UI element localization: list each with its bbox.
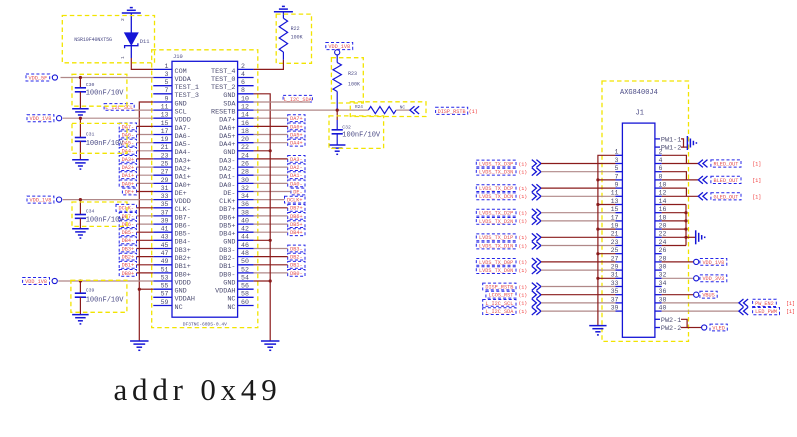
svg-text:1: 1 xyxy=(615,149,619,156)
svg-text:DISP_RSTB: DISP_RSTB xyxy=(485,284,513,290)
svg-text:DE-: DE- xyxy=(223,190,235,198)
svg-text:59: 59 xyxy=(161,299,169,306)
svg-text:DA3-: DA3- xyxy=(290,157,302,163)
wire J10 pin 8 GND to ground bus xyxy=(254,94,271,341)
svg-text:9: 9 xyxy=(165,95,169,102)
svg-text:VDDD: VDDD xyxy=(175,117,191,125)
svg-text:15: 15 xyxy=(161,120,169,127)
J10 pin 13 (VDDD) stub and label xyxy=(153,117,172,119)
wire J1 pin 6 to BLED_OUT xyxy=(662,172,687,180)
svg-text:VDDD: VDDD xyxy=(175,198,191,206)
wire GND bus to sideways ground xyxy=(686,236,696,238)
J10 pin 33 (VDDD) stub and label xyxy=(153,199,172,201)
net label L_I2C_SCL at J1 pin 37 xyxy=(483,300,516,307)
svg-text:40: 40 xyxy=(241,218,249,225)
svg-text:38: 38 xyxy=(241,209,249,216)
J10 pin 21 (DA4-) stub and label xyxy=(153,150,172,152)
connector J1 body xyxy=(622,123,655,337)
svg-text:NC: NC xyxy=(175,304,183,312)
svg-text:(1): (1) xyxy=(519,186,528,192)
svg-text:23: 23 xyxy=(611,239,619,246)
J10 pin 44 (GND) stub and label xyxy=(238,239,254,241)
svg-text:GND: GND xyxy=(223,239,235,247)
svg-text:DA2+: DA2+ xyxy=(175,166,191,174)
net label GLED_OUT (page 1) xyxy=(711,193,741,200)
wire LVDS_TX_D0P to J1 pin 27 xyxy=(541,261,616,263)
power port VDD_1V8 xyxy=(694,259,699,264)
J10 pin 9 (GND) stub and label xyxy=(153,101,172,103)
J10 pin 12 (RESETB) stub and label xyxy=(238,109,254,111)
J10 pin 48 (DB2-) stub and label xyxy=(238,256,254,258)
svg-text:DCLK-: DCLK- xyxy=(118,206,134,212)
svg-text:DB7+: DB7+ xyxy=(219,206,235,214)
wire DB2+ to J10 pin 47 xyxy=(137,256,154,258)
J1 pin 21 stub and number xyxy=(616,236,623,238)
svg-text:DB4-: DB4- xyxy=(122,238,134,244)
junction RESETB at R23/C32 xyxy=(336,109,339,112)
svg-text:C39: C39 xyxy=(86,287,95,293)
J10 pin 19 (DA5-) stub and label xyxy=(153,142,172,144)
wire L_I2C_SCL to J1 pin 37 xyxy=(541,302,616,304)
net label LVDS_TX_D0P at J1 pin 27 xyxy=(476,259,516,266)
svg-text:DA0+: DA0+ xyxy=(122,181,134,187)
svg-text:TEST_1: TEST_1 xyxy=(175,84,199,92)
wire J1 pin 7 GND to ground line xyxy=(598,179,616,181)
diode D11 (Schottky NSR10F40NXT5G) xyxy=(130,13,132,33)
net label DB7- at J10 pin 37 xyxy=(119,213,136,220)
yellow courtyard box around J10 xyxy=(152,50,258,328)
wire DA3+ to J10 pin 23 xyxy=(137,158,154,160)
svg-text:100nF/10V: 100nF/10V xyxy=(86,217,125,225)
net label DA3+ at J10 pin 23 xyxy=(119,156,136,163)
wire DA7- to J10 pin 15 xyxy=(137,125,154,127)
off-page chevron L_I2C_SCL xyxy=(532,299,537,307)
J1 pin PW2-1 stub and name xyxy=(655,318,660,320)
svg-text:11: 11 xyxy=(161,104,169,111)
J10 pin 10 (SDA) stub and label xyxy=(238,101,254,103)
net label DA1+ at J10 pin 27 xyxy=(119,172,136,179)
svg-text:VDDA: VDDA xyxy=(175,76,192,84)
svg-text:RLED_OUT: RLED_OUT xyxy=(713,162,738,168)
junction at J1 GND bus pin 20 xyxy=(684,228,687,231)
svg-text:DF3TNC-60DS-0.4V: DF3TNC-60DS-0.4V xyxy=(183,322,227,328)
wire DA6- to J10 pin 17 xyxy=(137,134,154,136)
svg-text:47: 47 xyxy=(161,250,169,257)
wire DA2- to J10 pin 26 xyxy=(254,166,288,168)
svg-text:R22: R22 xyxy=(291,26,300,32)
svg-text:VBUS: VBUS xyxy=(702,293,714,299)
svg-text:GND: GND xyxy=(175,288,187,296)
svg-text:VDD_1V8: VDD_1V8 xyxy=(30,116,52,122)
svg-text:29: 29 xyxy=(611,264,619,271)
svg-text:DA6+: DA6+ xyxy=(290,124,302,130)
wire DA3- to J10 pin 24 xyxy=(254,158,288,160)
svg-text:L_I2C_SCL: L_I2C_SCL xyxy=(485,301,513,307)
J10 pin 4 (TEST_0) stub and label xyxy=(238,77,254,79)
wire DB0+ to J10 pin 51 xyxy=(137,272,154,274)
J10 pin 31 (DE+) stub and label xyxy=(153,191,172,193)
ground symbol at J1 pin 22 (sideways) xyxy=(695,230,697,244)
J10 pin 55 (GND) stub and label xyxy=(153,288,172,290)
net label L_I2C_SDA xyxy=(283,95,312,102)
wire L_I2C_SDA to J1 pin 39 xyxy=(541,310,616,312)
J1 pin 3 stub and number xyxy=(616,163,623,165)
svg-text:9: 9 xyxy=(615,182,619,189)
wire L_I2C_SDA to J10 pin 10 xyxy=(254,101,310,103)
wire DE- to J10 pin 32 xyxy=(254,191,291,193)
svg-text:DA1+: DA1+ xyxy=(122,173,134,179)
svg-text:25: 25 xyxy=(611,247,619,254)
wire LVDS_TX_D1N to J1 pin 23 xyxy=(541,245,616,247)
ground under C32 xyxy=(329,144,346,146)
J10 pin 7 (TEST_3) stub and label xyxy=(153,93,172,95)
svg-text:21: 21 xyxy=(611,231,619,238)
svg-text:D11: D11 xyxy=(140,39,150,45)
wire DB6- to J10 pin 39 xyxy=(137,223,154,225)
svg-text:54: 54 xyxy=(241,274,249,281)
net label DB3+ at J10 pin 45 xyxy=(119,245,136,252)
junction VDD_1V8 at C39 xyxy=(79,279,82,282)
J1 pin 4 stub and number xyxy=(655,163,662,165)
J10 pin 38 (DB6+) stub and label xyxy=(238,215,254,217)
svg-text:PW2-2: PW2-2 xyxy=(661,325,681,333)
svg-text:26: 26 xyxy=(241,161,249,168)
wire J1 pin 12 to GLED_OUT xyxy=(662,195,699,197)
svg-text:L_I2C_SCL: L_I2C_SCL xyxy=(105,105,133,111)
J10 pin 24 (DA3-) stub and label xyxy=(238,158,254,160)
svg-text:29: 29 xyxy=(161,177,169,184)
J10 pin 56 (VDDAH) stub and label xyxy=(238,288,254,290)
J1 pin 25 stub and number xyxy=(616,253,623,255)
svg-text:DB1+: DB1+ xyxy=(122,263,134,269)
svg-text:6: 6 xyxy=(241,79,245,86)
wire DA7+ to J10 pin 14 xyxy=(254,117,288,119)
power port VDD_3V3 xyxy=(694,276,699,281)
svg-text:GND: GND xyxy=(175,100,187,108)
J1 pin 38 stub and number xyxy=(655,302,662,304)
ground under C39 xyxy=(72,314,89,316)
svg-text:100nF/10V: 100nF/10V xyxy=(342,132,381,140)
junction at J1 ground line pin 7 xyxy=(596,178,599,181)
wire DB1+ to J10 pin 49 xyxy=(137,264,154,266)
wire R22 to J10 pin 2 TEST_4 xyxy=(254,60,284,70)
svg-text:LVDS_TX_D0N: LVDS_TX_D0N xyxy=(479,268,513,274)
J1 pin 34 stub and number xyxy=(655,286,662,288)
svg-text:LVDS_TX_D2P: LVDS_TX_D2P xyxy=(479,211,513,217)
wire J1 pin 4 to RLED_OUT xyxy=(662,163,699,165)
svg-text:42: 42 xyxy=(241,226,249,233)
J1 pin 30 stub and number xyxy=(655,269,662,271)
J10 pin 30 (DA0-) stub and label xyxy=(238,182,254,184)
J10 pin 59 (NC) stub and label xyxy=(153,305,172,307)
svg-text:34: 34 xyxy=(241,193,249,200)
J10 pin 14 (DA7+) stub and label xyxy=(238,117,254,119)
svg-text:58: 58 xyxy=(241,291,249,298)
wire DB3- to J10 pin 46 xyxy=(254,248,288,250)
wire LVDS_TX_D2N to J1 pin 17 xyxy=(541,220,616,222)
svg-text:36: 36 xyxy=(241,201,249,208)
J10 pin 52 (DB0-) stub and label xyxy=(238,272,254,274)
wire J1 pin 31 GND to ground line xyxy=(598,277,616,279)
svg-text:VDDAH: VDDAH xyxy=(175,296,195,304)
off-page chevron LVDS_TX_D1N xyxy=(532,242,537,250)
J10 pin 57 (VDDAH) stub and label xyxy=(153,296,172,298)
svg-text:DA3+: DA3+ xyxy=(175,157,191,165)
net label L_I2C_SDA at J1 pin 39 xyxy=(483,308,516,315)
net label DB0+ at J10 pin 51 xyxy=(119,270,136,277)
J10 pin 8 (GND) stub and label xyxy=(238,93,254,95)
wire RESETB from J10 pin 12 to R24 xyxy=(254,109,369,111)
power port VDD_1V8 (middle) xyxy=(27,196,54,203)
J1 pin 5 stub and number xyxy=(616,171,623,173)
yellow courtyard box around C31 xyxy=(72,123,127,153)
svg-text:14: 14 xyxy=(659,198,667,205)
J1 pin 28 stub and number xyxy=(655,261,662,263)
net label DCLK+ at J10 pin 34 xyxy=(285,196,306,203)
wire VDD_1V8 to J10 pin 33 VDDD xyxy=(63,199,154,201)
svg-text:32: 32 xyxy=(241,185,249,192)
off-page chevron LVDS_TX_D2P xyxy=(532,209,537,217)
J1 pin 16 stub and number xyxy=(655,212,662,214)
off-page chevron LVDS_TX_D1P xyxy=(532,233,537,241)
svg-text:27: 27 xyxy=(161,169,169,176)
net label DB0- at J10 pin 52 xyxy=(288,270,305,277)
J10 pin 22 (GND) stub and label xyxy=(238,150,254,152)
svg-text:DB4+: DB4+ xyxy=(290,230,302,236)
svg-text:44: 44 xyxy=(241,234,249,241)
wire J1 pin 8 to BLED_OUT xyxy=(662,179,699,181)
net label DE+ at J10 pin 31 xyxy=(122,188,136,195)
J1 pin 33 stub and number xyxy=(616,286,623,288)
svg-text:RESETB: RESETB xyxy=(211,109,235,117)
svg-text:(1): (1) xyxy=(519,301,528,307)
svg-text:DA3+: DA3+ xyxy=(122,157,134,163)
svg-text:(1): (1) xyxy=(519,284,528,290)
svg-text:41: 41 xyxy=(161,226,169,233)
svg-text:7: 7 xyxy=(615,173,619,180)
svg-text:(1): (1) xyxy=(519,309,528,315)
resistor R22 100K xyxy=(282,12,284,18)
svg-text:(1): (1) xyxy=(519,268,528,274)
wire DA0+ to J10 pin 29 xyxy=(137,182,154,184)
wire LVDS_TX_D3P to J1 pin 3 xyxy=(541,163,616,165)
wire VDD_1V8 to J10 pin 53 VDDD xyxy=(58,280,153,282)
junction at ground bus pin 54 xyxy=(269,279,272,282)
svg-text:DA7+: DA7+ xyxy=(219,117,235,125)
svg-text:48: 48 xyxy=(241,250,249,257)
net label DISP_RSTB at J1 pin 33 xyxy=(483,283,516,290)
svg-text:11: 11 xyxy=(611,190,619,197)
wire J10 pin 22 GND to ground bus xyxy=(254,150,271,152)
wire J1 pin 40 to LED_PWM xyxy=(662,310,739,312)
svg-text:C31: C31 xyxy=(86,132,95,138)
svg-text:23: 23 xyxy=(161,152,169,159)
J1 pin 18 stub and number xyxy=(655,220,662,222)
svg-text:100nF/10V: 100nF/10V xyxy=(86,140,125,148)
svg-text:DB3+: DB3+ xyxy=(175,247,191,255)
svg-text:51: 51 xyxy=(161,266,169,273)
J1 pin 39 stub and number xyxy=(616,310,623,312)
J1 pin 8 stub and number xyxy=(655,179,662,181)
svg-text:16: 16 xyxy=(659,206,667,213)
net label DB1- at J10 pin 50 xyxy=(288,261,305,268)
J10 pin 5 (TEST_1) stub and label xyxy=(153,85,172,87)
svg-text:L_I2C_SDA: L_I2C_SDA xyxy=(485,309,514,315)
off-page chevron RLED_OUT xyxy=(703,160,708,168)
svg-text:DISP_RSTB: DISP_RSTB xyxy=(438,109,466,115)
svg-text:1: 1 xyxy=(165,63,169,70)
wire J1 pin 38 to PW_EN2 xyxy=(662,302,739,304)
junction at J1 ground line pin 31 xyxy=(596,277,599,280)
svg-text:(1): (1) xyxy=(519,211,528,217)
off-page connector chevron DISP_RSTB xyxy=(415,106,420,114)
svg-text:16: 16 xyxy=(241,120,249,127)
wire J1 pin 20 GND to bus xyxy=(662,228,686,230)
svg-text:19: 19 xyxy=(611,223,619,230)
svg-text:10: 10 xyxy=(241,95,249,102)
net label DA5+ at J10 pin 18 xyxy=(288,131,305,138)
svg-text:17: 17 xyxy=(161,128,169,135)
svg-text:35: 35 xyxy=(611,288,619,295)
net label DB6- at J10 pin 39 xyxy=(119,221,136,228)
svg-text:DB7+: DB7+ xyxy=(290,206,302,212)
ground under C34 xyxy=(72,228,89,230)
junction at ground bus pin 22 xyxy=(269,149,272,152)
net label DA6- at J10 pin 17 xyxy=(119,131,136,138)
junction at J1 ground line pin 25 xyxy=(596,252,599,255)
svg-text:DA4-: DA4- xyxy=(122,149,134,155)
svg-text:C32: C32 xyxy=(342,125,351,131)
svg-text:33: 33 xyxy=(611,280,619,287)
svg-text:NC: NC xyxy=(400,105,406,110)
svg-text:J10: J10 xyxy=(173,54,183,60)
wire J1 pin 24 GND to bus xyxy=(662,245,686,247)
yellow courtyard box around C34 xyxy=(72,202,127,226)
IC J10 body xyxy=(172,61,238,317)
wire J1 pin 22 GND to bus xyxy=(662,236,686,238)
net label DB6+ at J10 pin 38 xyxy=(288,213,305,220)
wire DB1- to J10 pin 50 xyxy=(254,264,288,266)
J1 pin 12 stub and number xyxy=(655,195,662,197)
svg-text:TEST_2: TEST_2 xyxy=(211,84,235,92)
svg-text:40: 40 xyxy=(659,305,667,312)
wire DA0- to J10 pin 30 xyxy=(254,182,288,184)
wire DE+ to J10 pin 31 xyxy=(137,191,154,193)
svg-text:20: 20 xyxy=(659,223,667,230)
J1 pin 15 stub and number xyxy=(616,212,623,214)
svg-text:45: 45 xyxy=(161,242,169,249)
svg-text:DB5-: DB5- xyxy=(175,231,191,239)
svg-text:(1): (1) xyxy=(519,161,528,167)
ground above diode D11 xyxy=(130,7,133,9)
svg-text:DA7+: DA7+ xyxy=(290,116,302,122)
svg-text:C34: C34 xyxy=(86,209,95,215)
J10 pin 29 (DA0+) stub and label xyxy=(153,182,172,184)
svg-text:GND: GND xyxy=(223,279,235,287)
net label LVDS_TX_D2P at J1 pin 15 xyxy=(476,209,516,216)
wire DA1+ to J10 pin 27 xyxy=(137,174,154,176)
svg-text:LVDS_TX_D3P: LVDS_TX_D3P xyxy=(479,161,513,167)
J1 pin PW2-2 stub and name xyxy=(655,327,660,329)
J1 pin 35 stub and number xyxy=(616,294,623,296)
J1 pin 24 stub and number xyxy=(655,245,662,247)
wire J10 pin 55 GND to ground line xyxy=(139,288,153,290)
wire DB3+ to J10 pin 45 xyxy=(137,248,154,250)
J1 pin 29 stub and number xyxy=(616,269,623,271)
J1 pin 17 stub and number xyxy=(616,220,623,222)
svg-text:VDD_1V8: VDD_1V8 xyxy=(30,198,52,204)
svg-text:NSR10F40NXT5G: NSR10F40NXT5G xyxy=(74,37,112,43)
svg-text:DA1+: DA1+ xyxy=(175,174,191,182)
svg-text:VDD_5F: VDD_5F xyxy=(29,76,48,82)
J1 pin 1 stub and number xyxy=(616,154,623,156)
off-page chevron LVDS_TX_D2N xyxy=(532,217,537,225)
wire DA1- to J10 pin 28 xyxy=(254,174,288,176)
J10 pin 17 (DA6-) stub and label xyxy=(153,134,172,136)
off-page chevron GLED_OUT xyxy=(703,192,708,200)
yellow courtyard box around R23 xyxy=(331,58,363,103)
wire J1 pin 2 to RLED_OUT xyxy=(662,155,687,163)
J10 pin 43 (DB4-) stub and label xyxy=(153,239,172,241)
svg-text:addr 0x49: addr 0x49 xyxy=(114,372,282,407)
net label L_I2C_SCL xyxy=(104,104,134,111)
junction at J1 GND bus pin 16 xyxy=(684,211,687,214)
net label DA6+ at J10 pin 16 xyxy=(288,123,305,130)
svg-text:DB6+: DB6+ xyxy=(219,214,235,222)
J10 pin 51 (DB0+) stub and label xyxy=(153,272,172,274)
svg-text:PW_EN2: PW_EN2 xyxy=(755,301,774,307)
J1 pin 13 stub and number xyxy=(616,204,623,206)
J1 pin 27 stub and number xyxy=(616,261,623,263)
yellow courtyard box around R24 xyxy=(350,102,426,117)
svg-text:100K: 100K xyxy=(291,34,303,40)
off-page chevron PW_EN2 xyxy=(744,299,749,307)
wire LCOS_RST to J1 pin 35 xyxy=(541,294,616,296)
svg-text:50: 50 xyxy=(241,258,249,265)
wire DB6+ to J10 pin 38 xyxy=(254,215,288,217)
resistor R24 (series in DISP_RSTB) xyxy=(368,107,396,114)
svg-text:VDDAH: VDDAH xyxy=(215,288,235,296)
J10 pin 58 (NC) stub and label xyxy=(238,296,254,298)
svg-text:PW2-1: PW2-1 xyxy=(661,317,681,325)
net label DB1+ at J10 pin 49 xyxy=(119,261,136,268)
svg-text:LVDS_TX_D1P: LVDS_TX_D1P xyxy=(479,235,513,241)
J1 pin 11 stub and number xyxy=(616,195,623,197)
wire J1 pin 32 to VDD_3V3 xyxy=(662,277,694,279)
svg-text:CLK+: CLK+ xyxy=(219,198,235,206)
svg-text:GND: GND xyxy=(223,149,235,157)
net label DB3- at J10 pin 46 xyxy=(288,245,305,252)
svg-text:[1]: [1] xyxy=(786,309,795,315)
J1 pin 36 stub and number xyxy=(655,294,662,296)
capacitor C34 100nF/10V xyxy=(79,200,81,215)
J1 pin PW1-1 stub and name xyxy=(655,138,660,140)
svg-text:PW1-1: PW1-1 xyxy=(661,137,681,145)
svg-text:VLED: VLED xyxy=(712,325,724,331)
wire J1 pin 18 GND to bus xyxy=(662,220,686,222)
svg-text:6: 6 xyxy=(659,165,663,172)
svg-text:DB7-: DB7- xyxy=(175,214,191,222)
J10 pin 11 (SCL) stub and label xyxy=(153,109,172,111)
net label DA1- at J10 pin 28 xyxy=(288,172,305,179)
net label DA0+ at J10 pin 29 xyxy=(119,180,136,187)
svg-text:57: 57 xyxy=(161,291,169,298)
svg-text:17: 17 xyxy=(611,214,619,221)
J10 pin 18 (DA5+) stub and label xyxy=(238,134,254,136)
net label LED_PWM (page 1) xyxy=(753,308,780,315)
svg-text:LVDS_TX_DCN: LVDS_TX_DCN xyxy=(479,194,513,200)
wire DA6+ to J10 pin 16 xyxy=(254,125,288,127)
